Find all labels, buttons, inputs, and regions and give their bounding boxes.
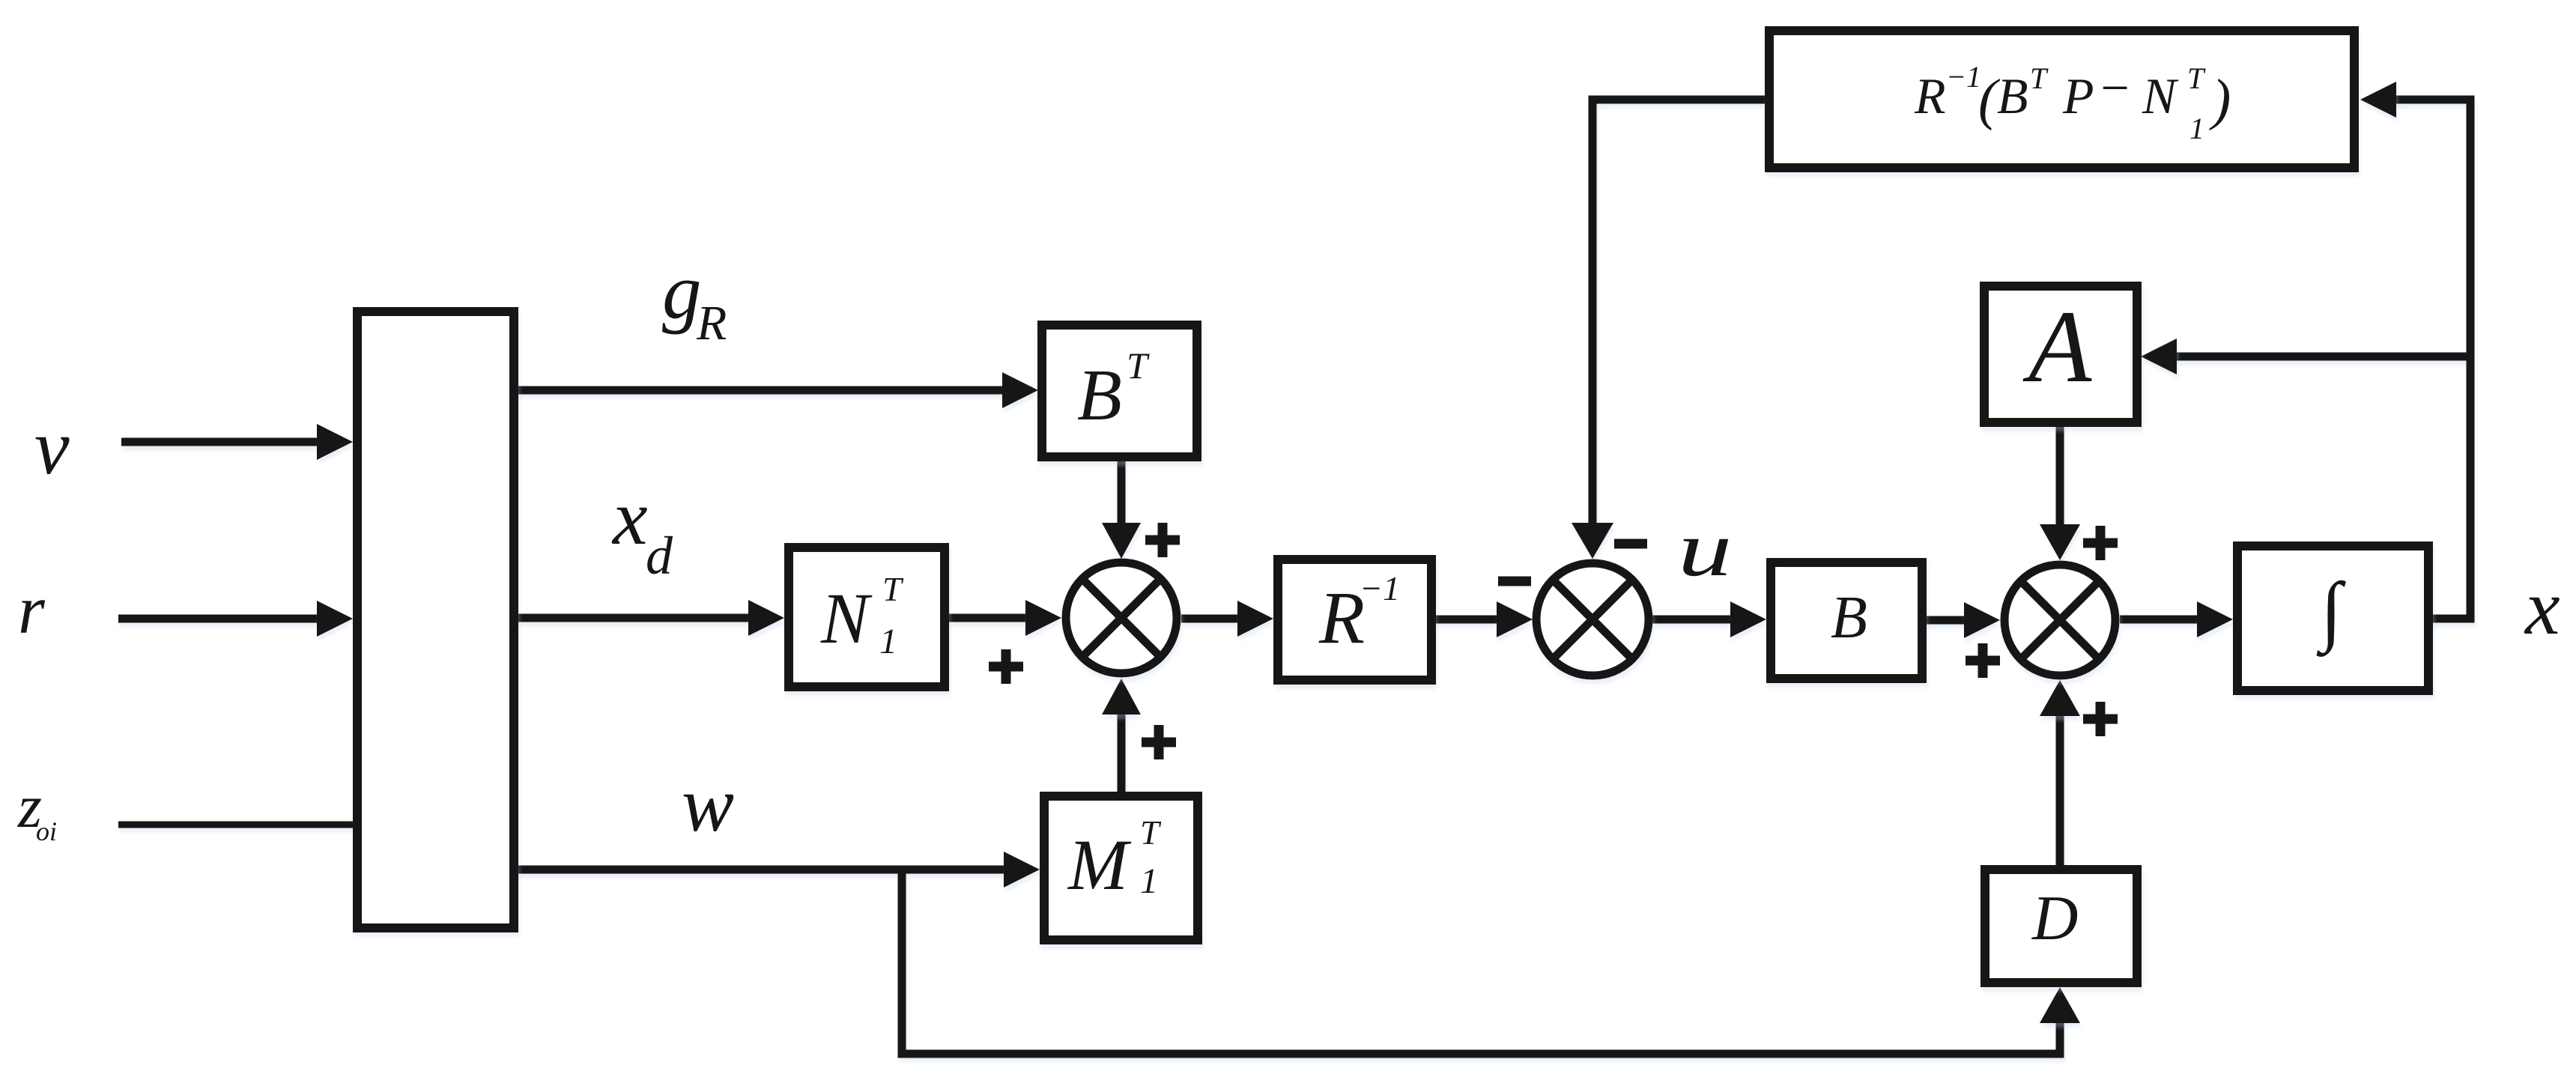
arrowhead g_R into B^T [1002, 372, 1038, 408]
svg-text:N: N [820, 578, 873, 658]
svg-text:1: 1 [879, 622, 897, 661]
wire sum2 to B, node u [1652, 616, 1738, 624]
block D [1985, 870, 2137, 983]
svg-text:T: T [1127, 345, 1150, 386]
svg-text:x: x [611, 473, 648, 561]
arrowhead A into sum3 [2040, 524, 2080, 560]
arrowhead D into sum3 [2040, 680, 2080, 716]
arrowhead R^-1 into sum2 [1497, 601, 1533, 637]
svg-text:B: B [1077, 355, 1122, 436]
wire g_R [514, 386, 1010, 395]
wire w branch down [902, 870, 2060, 1054]
sum2 cross [1553, 580, 1632, 659]
arrowhead sum2 into B [1730, 601, 1766, 637]
svg-text:T: T [882, 570, 904, 608]
summing junction sum2 [1536, 563, 1649, 676]
arrowhead feedback into top block [2360, 82, 2396, 118]
wire A to sum3 [2056, 423, 2064, 532]
wire w [514, 866, 1010, 874]
arrowhead B^T into sum1 [1102, 523, 1141, 559]
svg-text:N: N [2142, 67, 2179, 124]
wire sum3 to integrator [2120, 616, 2204, 624]
svg-text:r: r [18, 571, 46, 648]
wire D to sum3 [2056, 709, 2064, 869]
arrowhead sum3 into integrator [2197, 601, 2233, 637]
svg-text:T: T [1140, 813, 1162, 852]
wire B to sum3 [1923, 616, 1972, 625]
wire R^-1 to sum2 [1432, 616, 1504, 624]
svg-text:1: 1 [2189, 112, 2204, 145]
arrowhead N1T into sum1 [1025, 600, 1061, 636]
svg-text:−: − [2097, 59, 2132, 116]
svg-text:B: B [1997, 67, 2028, 124]
block M1T [1044, 796, 1198, 940]
svg-text:oi: oi [36, 816, 57, 846]
svg-text:D: D [2031, 883, 2078, 953]
sign + sum3 left [1966, 643, 2000, 678]
svg-text:P: P [2062, 67, 2094, 124]
wire r input [118, 615, 324, 623]
arrowhead branch into D [2040, 987, 2080, 1023]
arrowhead w into M1T [1004, 852, 1040, 888]
sum1 cross [1082, 579, 1160, 657]
arrowhead r into distributor [317, 601, 353, 637]
svg-text:R: R [1318, 576, 1365, 659]
svg-text:x: x [2524, 563, 2560, 651]
arrowhead top block into sum2 [1572, 523, 1613, 559]
arrowhead feedback into A [2141, 339, 2177, 374]
wire z_oi input [118, 822, 360, 828]
summing junction sum1 [1066, 562, 1177, 673]
svg-text:1: 1 [1140, 861, 1158, 901]
wire x_d [514, 614, 755, 622]
svg-text:u: u [1678, 506, 1732, 592]
svg-text:): ) [2209, 68, 2231, 131]
block N1T [789, 547, 945, 687]
sign - sum2 left [1498, 577, 1531, 586]
svg-text:v: v [34, 403, 70, 491]
summing junction sum3 [2004, 565, 2115, 676]
sign + sum1 bottom right [1142, 725, 1176, 759]
svg-text:−1: −1 [1360, 569, 1400, 607]
sign + sum3 top right [2083, 526, 2118, 560]
sum3 cross [2021, 581, 2099, 659]
block R^-1(B^T P - N1^T) [1769, 31, 2354, 168]
wire top block output left [1592, 100, 1768, 530]
wire feedback to A [2171, 353, 2470, 361]
svg-text:M: M [1067, 825, 1132, 905]
arrowhead sum1 into R^-1 [1237, 601, 1273, 637]
block integrator [2237, 546, 2428, 691]
svg-text:w: w [682, 760, 734, 848]
arrowhead M1T into sum1 [1102, 679, 1141, 715]
sign + sum1 top right [1145, 523, 1180, 557]
wire v input [121, 438, 324, 446]
arrowhead v into distributor [317, 424, 353, 460]
svg-text:g: g [662, 247, 702, 335]
block R^-1 [1278, 559, 1431, 680]
block A [1984, 286, 2137, 422]
arrowhead x_d into N1T [748, 600, 784, 636]
wire integrator output to node x and feedback riser [2389, 100, 2470, 619]
svg-text:R: R [1914, 67, 1946, 124]
block input distributor [357, 312, 514, 928]
wire sum1 to R^-1 [1181, 615, 1245, 623]
svg-text:d: d [646, 526, 673, 586]
svg-text:T: T [2030, 61, 2049, 95]
sign - sum2 top right [1614, 539, 1647, 549]
svg-text:A: A [2022, 289, 2092, 404]
svg-text:−1: −1 [1946, 60, 1981, 94]
svg-text:R: R [696, 296, 727, 351]
sign + sum1 left [989, 649, 1023, 684]
wire N1T to sum1 [945, 614, 1032, 622]
sign + sum3 bottom right [2083, 702, 2118, 736]
wire M1T to sum1 [1118, 707, 1126, 796]
arrowhead B into sum3 [1964, 602, 2000, 638]
svg-text:T: T [2187, 61, 2206, 95]
block B [1771, 562, 1922, 679]
block B^T [1042, 325, 1197, 457]
wire B^T to sum1 [1118, 457, 1126, 530]
svg-text:∫: ∫ [2316, 567, 2346, 657]
svg-text:B: B [1831, 585, 1867, 651]
